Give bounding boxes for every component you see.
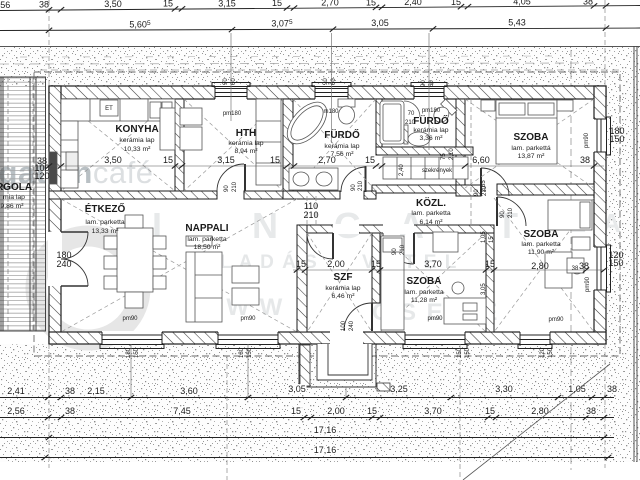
- svg-text:60: 60: [331, 78, 337, 85]
- svg-text:3,075: 3,075: [271, 19, 293, 29]
- svg-text:90: 90: [500, 211, 506, 218]
- svg-text:lam. parketta: lam. parketta: [187, 236, 227, 243]
- svg-text:90: 90: [323, 78, 329, 85]
- svg-text:150: 150: [465, 347, 471, 358]
- svg-text:lam. parketta: lam. parketta: [85, 219, 125, 226]
- svg-text:3,36 m²: 3,36 m²: [419, 135, 443, 142]
- svg-text:210: 210: [400, 244, 406, 255]
- svg-text:lam. parketta: lam. parketta: [404, 289, 444, 296]
- svg-text:2,80: 2,80: [531, 261, 549, 271]
- svg-text:kerámia lap: kerámia lap: [325, 285, 360, 292]
- svg-text:120: 120: [34, 171, 49, 181]
- svg-text:5,605: 5,605: [129, 20, 151, 30]
- svg-text:pm180: pm180: [223, 111, 242, 117]
- svg-text:SZF: SZF: [334, 272, 353, 283]
- svg-text:3,50: 3,50: [104, 0, 122, 9]
- svg-text:3,30: 3,30: [495, 384, 513, 394]
- svg-text:15: 15: [365, 155, 375, 165]
- svg-text:15: 15: [367, 406, 377, 416]
- svg-text:38: 38: [39, 0, 49, 10]
- svg-text:FÜRDŐ: FÜRDŐ: [413, 114, 449, 127]
- svg-text:10,33 m²: 10,33 m²: [124, 146, 152, 153]
- svg-text:15: 15: [366, 0, 376, 7]
- svg-text:180: 180: [126, 347, 132, 358]
- svg-text:3,15: 3,15: [217, 155, 235, 165]
- svg-text:m180: m180: [323, 109, 339, 115]
- svg-text:pm90: pm90: [584, 132, 590, 148]
- svg-text:15: 15: [371, 259, 381, 269]
- svg-text:240: 240: [56, 259, 71, 269]
- svg-text:13,87 m²: 13,87 m²: [518, 153, 546, 160]
- svg-text:38: 38: [65, 386, 75, 396]
- svg-text:SZOBA: SZOBA: [524, 229, 559, 240]
- svg-text:38: 38: [580, 155, 590, 165]
- svg-text:pm180: pm180: [422, 108, 441, 114]
- svg-text:kerámia lap: kerámia lap: [324, 143, 359, 150]
- svg-text:120: 120: [540, 347, 546, 358]
- svg-text:3,60: 3,60: [180, 386, 198, 396]
- svg-text:HTH: HTH: [236, 128, 257, 139]
- svg-text:pm90: pm90: [122, 316, 138, 322]
- svg-text:5,43: 5,43: [508, 18, 526, 28]
- svg-text:60: 60: [429, 80, 435, 87]
- svg-text:11,28 m²: 11,28 m²: [411, 297, 438, 304]
- svg-text:3,05: 3,05: [288, 384, 306, 394]
- svg-text:90: 90: [224, 185, 230, 192]
- svg-text:210: 210: [303, 210, 318, 220]
- svg-text:pm90: pm90: [240, 316, 256, 322]
- svg-text:15: 15: [272, 0, 282, 8]
- svg-text:KÖZL.: KÖZL.: [416, 196, 446, 209]
- svg-text:15: 15: [451, 0, 461, 7]
- svg-text:FÜRDŐ: FÜRDŐ: [324, 128, 360, 141]
- svg-text:2,85: 2,85: [481, 180, 487, 192]
- svg-text:11,90 m²: 11,90 m²: [528, 249, 555, 256]
- svg-text:150: 150: [608, 258, 623, 268]
- svg-text:210: 210: [358, 180, 364, 191]
- svg-text:17,16: 17,16: [314, 445, 337, 455]
- svg-text:T: T: [496, 205, 518, 246]
- svg-text:150: 150: [247, 347, 253, 358]
- svg-text:210: 210: [232, 181, 238, 192]
- svg-text:75: 75: [441, 153, 447, 160]
- svg-text:3,05: 3,05: [481, 283, 487, 295]
- svg-text:7,56 m²: 7,56 m²: [330, 151, 354, 158]
- svg-text:3,50: 3,50: [104, 155, 122, 165]
- svg-text:210: 210: [405, 120, 416, 126]
- svg-text:15: 15: [296, 259, 306, 269]
- svg-text:6,60: 6,60: [472, 155, 490, 165]
- svg-text:60: 60: [231, 78, 237, 85]
- svg-text:KONYHA: KONYHA: [115, 124, 158, 135]
- svg-text:15: 15: [163, 0, 173, 9]
- svg-text:38: 38: [572, 266, 579, 272]
- svg-text:pm90: pm90: [585, 276, 591, 292]
- svg-text:150: 150: [548, 347, 554, 358]
- svg-text:18,50 m²: 18,50 m²: [194, 244, 222, 251]
- svg-text:90: 90: [351, 184, 357, 191]
- svg-text:7,45: 7,45: [173, 406, 191, 416]
- svg-text:210: 210: [508, 207, 514, 218]
- svg-text:90: 90: [421, 80, 427, 87]
- svg-text:2,40: 2,40: [404, 0, 422, 7]
- svg-text:kerámia lap: kerámia lap: [228, 140, 263, 147]
- svg-text:38: 38: [586, 406, 596, 416]
- svg-text:3,25: 3,25: [390, 384, 408, 394]
- svg-text:180: 180: [239, 347, 245, 358]
- svg-text:15: 15: [270, 155, 280, 165]
- svg-text:pm90: pm90: [548, 317, 564, 323]
- svg-text:ÉTKEZŐ: ÉTKEZŐ: [85, 202, 126, 215]
- svg-text:38: 38: [65, 406, 75, 416]
- svg-text:lam. parkettá: lam. parkettá: [511, 145, 551, 152]
- svg-text:100: 100: [341, 320, 347, 331]
- svg-text:pm90: pm90: [427, 316, 443, 322]
- svg-text:NAPPALI: NAPPALI: [185, 223, 228, 234]
- svg-text:38: 38: [583, 0, 593, 6]
- svg-text:2,41: 2,41: [7, 386, 25, 396]
- svg-text:90: 90: [223, 78, 229, 85]
- svg-text:3,05: 3,05: [371, 18, 389, 28]
- svg-text:6,14 m²: 6,14 m²: [419, 219, 443, 226]
- svg-text:9,86 m²: 9,86 m²: [0, 203, 24, 210]
- svg-text:150: 150: [457, 347, 463, 358]
- svg-text:SZOBA: SZOBA: [514, 132, 549, 143]
- svg-text:38: 38: [579, 261, 589, 271]
- svg-text:38: 38: [607, 384, 617, 394]
- svg-text:N: N: [252, 205, 278, 246]
- svg-text:15: 15: [485, 406, 495, 416]
- svg-text:4,05: 4,05: [513, 0, 531, 7]
- svg-text:lam. parketta: lam. parketta: [411, 210, 451, 217]
- svg-text:3,15: 3,15: [218, 0, 236, 8]
- svg-text:150: 150: [134, 347, 140, 358]
- svg-text:3,70: 3,70: [424, 406, 442, 416]
- svg-text:2,40: 2,40: [399, 164, 405, 176]
- svg-text:2,00: 2,00: [327, 259, 345, 269]
- svg-text:15: 15: [163, 155, 173, 165]
- svg-text:lam. parketta: lam. parketta: [521, 241, 561, 248]
- svg-text:8,94 m²: 8,94 m²: [234, 148, 258, 155]
- svg-text:2,10: 2,10: [449, 148, 455, 160]
- svg-text:6,46 m²: 6,46 m²: [331, 293, 355, 300]
- svg-text:15: 15: [291, 406, 301, 416]
- svg-text:240: 240: [349, 320, 355, 331]
- svg-text:kerámia lap: kerámia lap: [413, 127, 448, 134]
- svg-text:szekrények: szekrények: [422, 168, 453, 174]
- svg-text:3,70: 3,70: [424, 259, 442, 269]
- svg-text:1,05: 1,05: [481, 231, 487, 243]
- svg-text:ET: ET: [105, 106, 113, 112]
- svg-text:kerámia lap: kerámia lap: [119, 137, 154, 144]
- svg-text:mia lap: mia lap: [3, 194, 25, 201]
- svg-text:70: 70: [408, 111, 415, 117]
- svg-text:,56: ,56: [0, 0, 10, 10]
- svg-text:2,56: 2,56: [7, 406, 25, 416]
- svg-text:15: 15: [489, 236, 495, 243]
- svg-text:13,33 m²: 13,33 m²: [92, 228, 120, 235]
- svg-text:17,16: 17,16: [314, 425, 337, 435]
- svg-text:90: 90: [392, 248, 398, 255]
- svg-text:90: 90: [474, 189, 480, 196]
- svg-text:2,15: 2,15: [87, 386, 105, 396]
- svg-text:SZOBA: SZOBA: [407, 276, 442, 287]
- svg-text:2,70: 2,70: [321, 0, 339, 8]
- svg-text:2,00: 2,00: [327, 406, 345, 416]
- svg-text:RGOLA: RGOLA: [0, 182, 32, 193]
- svg-text:150: 150: [609, 134, 624, 144]
- svg-text:15: 15: [485, 259, 495, 269]
